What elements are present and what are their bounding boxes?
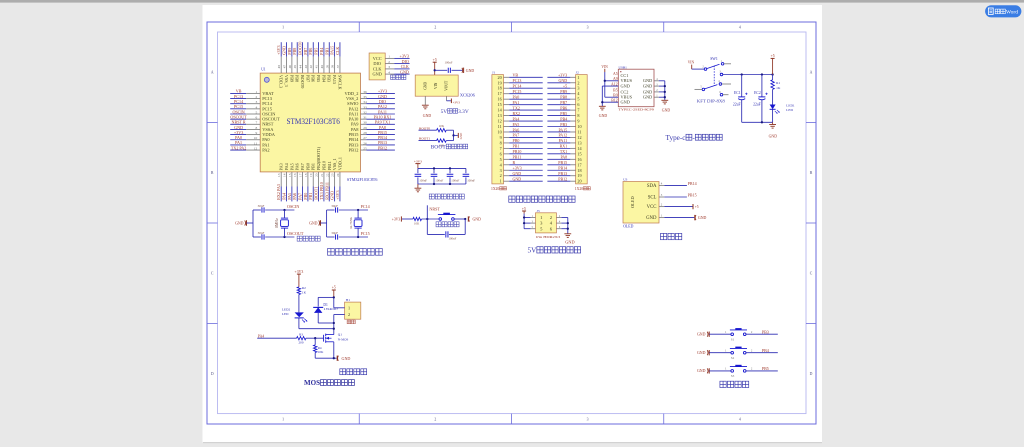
- MCU bottom pin 20 PB2(BOOT1) wire, net BOOT1: [314, 146, 322, 201]
- svg-text:H1: H1: [346, 298, 350, 302]
- wire source to bottom rail: [315, 342, 336, 360]
- svg-text:Pin HDR2X3: Pin HDR2X3: [536, 235, 560, 239]
- svg-text:6: 6: [577, 102, 579, 107]
- ground port (crystal 32.768K): [309, 220, 327, 225]
- node filter rail junctions: [433, 167, 451, 185]
- button 转为Word: [985, 5, 1021, 17]
- J3 pin 2 wire (right): [556, 215, 567, 218]
- caption 单片机引脚外引排针: [509, 196, 575, 202]
- svg-text:GND: GND: [697, 351, 706, 355]
- svg-text:1: 1: [500, 179, 502, 184]
- svg-text:SWCLK: SWCLK: [337, 75, 342, 90]
- header J2 pin 14 wire, net RX1: [547, 144, 575, 149]
- header J2 pin 17 wire, net PB15: [547, 160, 575, 165]
- capacitor EC1 22uF polarized: [733, 75, 748, 123]
- header J1 pin 8 wire, net PB0: [504, 138, 543, 143]
- wire crystal left vertical: [326, 210, 328, 237]
- svg-text:GND: GND: [643, 78, 652, 83]
- svg-text:5: 5: [256, 110, 258, 114]
- wire button to GND port: [454, 218, 466, 220]
- svg-text:42: 42: [309, 65, 313, 69]
- svg-text:16: 16: [498, 97, 502, 102]
- MCU pin 3 PC14 wire, net PC14: [230, 99, 273, 106]
- J3 pin 6 wire (right): [556, 226, 567, 229]
- svg-text:MOS: MOS: [304, 379, 320, 387]
- svg-text:14: 14: [283, 173, 287, 177]
- svg-text:PB12: PB12: [378, 145, 387, 150]
- LED2 LED: [282, 295, 307, 323]
- svg-text:VSS_3: VSS_3: [284, 75, 289, 87]
- header J2 pin 8 wire, net PB5: [547, 111, 575, 116]
- caption 显示屏: [660, 233, 681, 239]
- svg-text:STM32F103C8T6: STM32F103C8T6: [347, 178, 378, 182]
- svg-text:GND: GND: [282, 46, 287, 55]
- svg-text:36: 36: [363, 90, 367, 94]
- svg-text:15: 15: [498, 102, 502, 107]
- svg-text:5V: 5V: [527, 246, 536, 255]
- svg-text:PB10: PB10: [321, 161, 326, 170]
- capacitor 30pF (top): [327, 204, 368, 213]
- svg-text:PB8: PB8: [292, 48, 297, 55]
- ground port (key S2): [697, 350, 709, 355]
- svg-text:10: 10: [498, 129, 502, 134]
- node crystal top: [357, 209, 359, 211]
- svg-text:PB12: PB12: [349, 147, 359, 152]
- svg-text:11: 11: [498, 124, 502, 129]
- svg-text:PB1: PB1: [308, 193, 313, 200]
- svg-text:100nF: 100nF: [419, 179, 427, 183]
- ground port (key S1): [697, 332, 709, 337]
- svg-text:VIN: VIN: [601, 65, 608, 69]
- MCU pin 10 PA0 wire, net PA0: [230, 135, 270, 142]
- svg-text:PB1: PB1: [513, 144, 520, 149]
- svg-text:6: 6: [256, 116, 258, 120]
- resistor R3 200 (gate series): [297, 332, 306, 344]
- svg-text:PB0: PB0: [305, 163, 310, 170]
- caption 5V外接备用电源: [527, 246, 580, 255]
- MCU pin 9 VDDA wire, net +3V3: [230, 130, 276, 137]
- svg-text:OSCIN: OSCIN: [287, 204, 299, 209]
- wire shell pins junction + ground (Type-C right): [661, 81, 670, 113]
- svg-text:STM32F103C8T6: STM32F103C8T6: [286, 117, 340, 126]
- svg-text:B12: B12: [611, 99, 617, 103]
- svg-text:BOOT0: BOOT0: [419, 126, 431, 130]
- svg-text:GND: GND: [342, 356, 351, 361]
- svg-text:7: 7: [577, 108, 579, 113]
- svg-text:TX3 PB10: TX3 PB10: [319, 182, 324, 200]
- label 1X20排针 (J1): [491, 187, 507, 191]
- svg-text:1: 1: [388, 55, 390, 59]
- svg-text:1: 1: [577, 75, 579, 80]
- header J2 pin 10 wire, net PB3: [547, 122, 575, 127]
- MCU pin 35 VSS_2 wire, net GND: [346, 94, 395, 101]
- ground symbol (filter rail): [415, 184, 422, 192]
- LED1 LED: [770, 89, 795, 122]
- header J1 pin 9 wire, net PA7: [504, 133, 543, 138]
- power flag +3V3 (LED2 chain): [295, 270, 304, 287]
- svg-text:SCL: SCL: [648, 196, 657, 201]
- regulator GND pin wire + ground symbol: [422, 96, 432, 118]
- svg-text:GND: GND: [697, 333, 706, 337]
- wire key S2 to net PB4: [746, 348, 778, 353]
- svg-text:GND: GND: [466, 69, 475, 73]
- svg-text:J3: J3: [537, 209, 540, 213]
- svg-text:PB13: PB13: [558, 171, 567, 176]
- header J2 pin 12 wire, net PA12: [547, 133, 575, 138]
- MCU top pin 45 PB8 wire, net PB8: [292, 42, 299, 82]
- svg-text:PB2(BOOT1): PB2(BOOT1): [316, 146, 321, 170]
- svg-text:LED: LED: [786, 108, 793, 112]
- header J3 Pin_HDR2X3 body: [536, 209, 561, 239]
- svg-text:23: 23: [331, 173, 335, 177]
- node NRST: [426, 218, 428, 220]
- svg-text:PA2: PA2: [262, 147, 269, 152]
- wire junction vertical: [453, 130, 455, 140]
- MCU pin 7 NRST wire, net NRST R: [230, 120, 274, 127]
- svg-text:S1: S1: [731, 337, 735, 341]
- ground port right of capacitor: [462, 68, 475, 73]
- svg-text:PC13: PC13: [513, 78, 522, 83]
- svg-text:GND: GND: [330, 191, 335, 200]
- USB1 shell pin 1 wire: [654, 94, 665, 97]
- header J1 pin 4 wire, net R: [504, 160, 543, 165]
- svg-text:9: 9: [577, 119, 579, 124]
- header J2 pin 19 wire, net PB13: [547, 171, 575, 176]
- svg-text:TX2: TX2: [513, 105, 520, 110]
- capacitor C3 100nF (filter): [431, 168, 444, 184]
- svg-text:PA5: PA5: [287, 193, 292, 200]
- svg-text:+3V3: +3V3: [558, 73, 567, 78]
- MCU bottom pin 21 PB10 wire, net TX3 PB10: [319, 161, 327, 201]
- caption 输出控制: [340, 369, 367, 375]
- header J2 pin 15 wire, net TX1: [547, 149, 575, 154]
- header J1 1X20 body: [492, 70, 504, 183]
- svg-text:TYPEC-2SED-8CP9: TYPEC-2SED-8CP9: [618, 107, 654, 111]
- switch SW1 KFT DIP-8X8: [688, 57, 731, 96]
- download port pin 2 wire, net DIO: [385, 59, 409, 64]
- svg-text:PB5: PB5: [314, 48, 319, 55]
- svg-text:PA11: PA11: [559, 138, 568, 143]
- header J1 pin 7 wire, net PB1: [504, 144, 543, 149]
- svg-text:PA6: PA6: [295, 163, 300, 170]
- svg-text:GND: GND: [459, 132, 463, 139]
- MCU pin 4 PC15 wire, net PC15: [230, 104, 273, 111]
- caption 复位电路: [436, 222, 459, 227]
- ground port (reset): [468, 216, 481, 221]
- MCU top pin 46 PB9 wire, net PB9: [287, 42, 294, 82]
- svg-text:PB4: PB4: [560, 116, 567, 121]
- svg-text:3: 3: [587, 26, 589, 30]
- svg-text:4: 4: [739, 26, 741, 30]
- svg-text:RX2 PA3: RX2 PA3: [276, 184, 281, 200]
- svg-text:PB6: PB6: [311, 75, 316, 82]
- resistor R2 1K: [297, 286, 306, 294]
- svg-text:22uF: 22uF: [753, 102, 761, 106]
- header J1 pin 1 wire, net GND: [504, 176, 543, 181]
- USB1 left pin labels A5-B12: [611, 72, 618, 103]
- wire GND pins A12/B12 to ground: [601, 86, 618, 106]
- svg-text:24: 24: [336, 173, 340, 177]
- MCU bottom pin 13 PA3 wire, net RX2 PA3: [276, 163, 284, 201]
- svg-text:GND: GND: [235, 221, 244, 225]
- node +5/D1 junction: [333, 296, 335, 298]
- svg-text:GND: GND: [662, 109, 671, 113]
- svg-text:KFT DIP-8X8: KFT DIP-8X8: [697, 99, 726, 104]
- header J2 pin 5 wire, net PB8: [547, 94, 575, 99]
- svg-text:43: 43: [304, 65, 308, 69]
- header J1 pin 14 wire, net TX2: [504, 105, 543, 110]
- svg-text:1X20: 1X20: [575, 187, 583, 191]
- push button S2: [730, 347, 747, 360]
- caption 芯片滤波电容: [429, 194, 464, 199]
- svg-text:VBUS: VBUS: [621, 78, 633, 83]
- ground symbol (Type-C rail): [769, 122, 778, 138]
- svg-text:1: 1: [282, 418, 284, 422]
- svg-text:17: 17: [577, 162, 581, 167]
- header J2 pin 6 wire, net PB7: [547, 100, 575, 105]
- svg-text:RX2: RX2: [513, 111, 521, 116]
- caption 晶振电路: [297, 236, 320, 241]
- caption Type-c口-电源电路: [666, 134, 723, 142]
- header J2 pin 16 wire, net PA8: [547, 155, 575, 160]
- svg-text:GND: GND: [309, 221, 318, 225]
- capacitor C4 100nF (filter): [447, 168, 460, 184]
- header J2 pin 13 wire, net PA11: [547, 138, 575, 143]
- header J1 pin 19 wire, net PC13: [504, 78, 543, 83]
- svg-text:46: 46: [288, 65, 292, 69]
- svg-text:PB14: PB14: [688, 181, 697, 186]
- svg-text:2: 2: [500, 173, 502, 178]
- svg-text:2: 2: [256, 95, 258, 99]
- svg-text:32.768K: 32.768K: [349, 216, 353, 229]
- ground symbol (Type-C left): [599, 106, 608, 118]
- svg-text:PA7: PA7: [513, 133, 520, 138]
- svg-text:BOOT1: BOOT1: [419, 137, 431, 141]
- svg-text:47: 47: [283, 65, 287, 69]
- svg-text:+3V3: +3V3: [453, 101, 461, 105]
- USB1 shell pin 2 wire: [654, 89, 665, 92]
- svg-text:3: 3: [500, 168, 502, 173]
- MCU pin 28 PB15 wire, net PB15: [349, 130, 395, 137]
- svg-text:PA6: PA6: [292, 193, 297, 200]
- svg-text:+3V3: +3V3: [335, 190, 340, 199]
- header J1 pin 18 wire, net PC14: [504, 84, 543, 89]
- wire J3 right vertical + ground: [564, 218, 574, 245]
- svg-text:4: 4: [739, 418, 741, 422]
- svg-text:PB11: PB11: [327, 161, 332, 170]
- svg-text:1: 1: [348, 305, 350, 310]
- svg-text:PB15: PB15: [688, 192, 697, 197]
- MCU pin 2 PC13 wire, net PC13: [230, 94, 273, 101]
- svg-text:10: 10: [577, 124, 581, 129]
- svg-text:26: 26: [363, 141, 367, 145]
- MCU pin 25 PB12 wire, net PB12: [349, 145, 395, 152]
- svg-text:PC15: PC15: [361, 231, 370, 236]
- svg-text:35: 35: [363, 95, 367, 99]
- svg-text:9: 9: [500, 135, 502, 140]
- MCU bottom pin 18 PB0 wire, net PB0: [303, 163, 311, 201]
- svg-text:1X20: 1X20: [491, 187, 499, 191]
- MCU pin 6 OSCOUT wire, net OSCOUT: [230, 114, 280, 121]
- svg-text:PA6: PA6: [513, 127, 520, 132]
- svg-text:PA15: PA15: [330, 46, 335, 55]
- svg-text:PB7: PB7: [303, 48, 308, 55]
- svg-text:TX2 PA2: TX2 PA2: [231, 145, 246, 150]
- OLED pin 4 SDA wire, net PB14: [659, 181, 697, 186]
- svg-text:PA15: PA15: [558, 127, 567, 132]
- svg-text:30pF: 30pF: [331, 204, 338, 208]
- svg-text:19: 19: [498, 80, 502, 85]
- svg-text:8: 8: [500, 140, 502, 145]
- svg-text:9: 9: [256, 131, 258, 135]
- push button S3: [730, 365, 747, 378]
- svg-text:PB12: PB12: [558, 176, 567, 181]
- MCU pin 12 PA2 wire, net TX2 PA2: [230, 145, 269, 152]
- svg-text:18: 18: [304, 173, 308, 177]
- wire BOOT0 resistor to junction: [446, 129, 453, 131]
- header J1 pin 3 wire, net +3V3: [504, 166, 543, 171]
- svg-text:4: 4: [388, 70, 390, 74]
- net label PA4 + wire to R3: [257, 334, 296, 338]
- svg-text:RX3 PB11: RX3 PB11: [324, 182, 329, 200]
- wire switch pin3 to +5 rail: [723, 73, 774, 75]
- svg-text:PA8: PA8: [560, 155, 567, 160]
- resistor R4 10K (gate pulldown): [314, 338, 324, 358]
- svg-text:PC14: PC14: [361, 204, 370, 209]
- svg-text:VOUT: VOUT: [445, 80, 449, 91]
- node: +5 / C / VIN junction: [434, 69, 436, 71]
- node BOOT junction: [452, 134, 454, 136]
- power flag +5 (J3): [522, 207, 526, 229]
- header J1 pin 5 wire, net PB11: [504, 155, 543, 160]
- caption KFT DIP-8X8: [697, 99, 726, 104]
- ground port (BOOT pulldown): [454, 132, 463, 139]
- svg-text:22uF: 22uF: [733, 102, 741, 106]
- wire Type-C bottom rail: [742, 121, 773, 123]
- MCU top pin 37 SWCLK wire, net CLK: [335, 42, 342, 89]
- svg-text:1K: 1K: [776, 86, 781, 90]
- svg-text:GND: GND: [423, 82, 427, 90]
- svg-text:LED: LED: [282, 312, 289, 316]
- wire +3V3 top rail: [418, 167, 466, 169]
- J3 pin 3 wire (left): [524, 221, 535, 224]
- svg-text:U3: U3: [623, 177, 627, 181]
- svg-text:12: 12: [498, 119, 502, 124]
- svg-text:+3V3: +3V3: [295, 270, 304, 274]
- header J1 pin 20 wire, net VB: [504, 73, 543, 78]
- svg-text:PC15: PC15: [513, 89, 522, 94]
- svg-text:PB5: PB5: [560, 111, 567, 116]
- resistor R1 1K: [771, 75, 781, 90]
- svg-text:OLED: OLED: [630, 196, 635, 208]
- svg-text:PB4: PB4: [762, 348, 769, 353]
- svg-text:48: 48: [277, 65, 281, 69]
- MCU pin 26 PB13 wire, net PB13: [349, 140, 395, 147]
- svg-text:PA5: PA5: [289, 163, 294, 170]
- MCU top pin 38 PA15 wire, net PA15: [330, 42, 337, 84]
- svg-text:GND: GND: [513, 176, 522, 181]
- caption MOS管控制输出: [304, 379, 354, 387]
- header J2 1X20 body: [576, 70, 588, 183]
- svg-text:U1: U1: [261, 68, 266, 72]
- svg-text:J2: J2: [576, 70, 579, 74]
- MCU pin 5 OSCIN wire, net OSCIN: [230, 109, 276, 116]
- svg-text:PA12: PA12: [558, 133, 567, 138]
- svg-text:+5: +5: [563, 84, 567, 89]
- svg-text:10: 10: [254, 136, 258, 140]
- svg-text:PB9: PB9: [560, 89, 567, 94]
- header J1 pin 17 wire, net PC15: [504, 89, 543, 94]
- wire crystal left vertical: [252, 210, 254, 237]
- svg-text:A12: A12: [611, 83, 618, 87]
- header J2 pin 4 wire, net PB9: [547, 89, 575, 94]
- svg-text:GND: GND: [373, 72, 382, 77]
- svg-text:B: B: [810, 171, 813, 175]
- MCU top pin 43 PB7 wire, net PB7: [303, 42, 310, 82]
- svg-text:A: A: [211, 71, 214, 75]
- svg-text:PA1: PA1: [513, 100, 520, 105]
- caption 单片机最小系统: [328, 249, 383, 256]
- regulator VOUT wire to +3V3 port: [447, 96, 461, 105]
- MCU top pin 39 PB3 wire, net PB3: [324, 42, 331, 82]
- wire H1 pin1 stub: [334, 307, 345, 309]
- svg-text:PB1: PB1: [311, 163, 316, 170]
- header J2 pin 18 wire, net PB14: [547, 166, 575, 171]
- svg-text:VCC: VCC: [647, 205, 657, 210]
- header J2 pin 1 wire, net +3V3: [547, 73, 575, 78]
- svg-text:PC14: PC14: [513, 84, 522, 89]
- OLED pin 2 VCC wire to +5 port: [659, 203, 699, 210]
- svg-text:+3V3: +3V3: [513, 166, 522, 171]
- svg-text:2: 2: [434, 418, 436, 422]
- node crystal bottom: [283, 236, 285, 238]
- resistor 10K (BOOT1 pulldown): [437, 139, 447, 147]
- node crystal bottom: [357, 236, 359, 238]
- power flag +5 (H1): [332, 286, 336, 308]
- svg-text:B9: B9: [613, 94, 618, 98]
- svg-text:12: 12: [577, 135, 581, 140]
- svg-text:16: 16: [577, 157, 581, 162]
- svg-text:BOOT: BOOT: [431, 145, 447, 151]
- svg-text:29: 29: [363, 126, 367, 130]
- svg-text:2: 2: [577, 80, 579, 85]
- header J2 pin 20 wire, net PB12: [547, 176, 575, 181]
- wire resistor to NRST node: [422, 218, 439, 220]
- svg-text:3.3V: 3.3V: [458, 109, 469, 115]
- svg-text:C: C: [810, 272, 813, 276]
- svg-text:PB3: PB3: [560, 122, 567, 127]
- capacitor 100nF (regulator input): [445, 61, 453, 73]
- svg-text:20: 20: [315, 173, 319, 177]
- svg-text:Word: Word: [1006, 10, 1018, 16]
- node crystal top: [283, 209, 285, 211]
- svg-text:A: A: [810, 71, 813, 75]
- ground port (MOS source): [337, 356, 350, 361]
- svg-text:21: 21: [320, 173, 324, 177]
- header J1 pin 16 wire, net PA0: [504, 94, 543, 99]
- wire R3 to gate: [306, 337, 323, 339]
- MCU bottom pin 22 PB11 wire, net RX3 PB11: [324, 161, 332, 201]
- svg-text:BOOT0: BOOT0: [298, 42, 303, 55]
- J3 pin 1 wire (left): [524, 215, 535, 218]
- svg-text:39: 39: [325, 65, 329, 69]
- svg-text:100nF: 100nF: [435, 179, 443, 183]
- capacitor C2 100nF (filter): [415, 168, 428, 184]
- svg-text:44: 44: [299, 65, 303, 69]
- svg-text:30pF: 30pF: [331, 231, 338, 235]
- header J1 pin 6 wire, net PB10: [504, 149, 543, 154]
- svg-text:8: 8: [577, 113, 579, 118]
